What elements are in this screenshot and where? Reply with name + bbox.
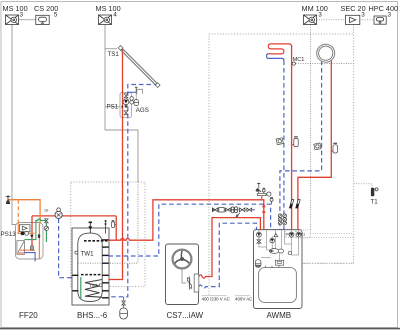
wire MS100-3 to CS200 link xyxy=(19,19,36,21)
DHW circulation pump PS5 xyxy=(55,211,62,218)
tank heater dashed flange xyxy=(84,240,108,242)
svg-text:PS13: PS13 xyxy=(1,231,17,238)
check blob on circulation xyxy=(38,234,40,238)
buffer tank BHS outer box xyxy=(72,228,109,305)
FF20 heat exchanger xyxy=(17,241,25,255)
air vent on tank return xyxy=(270,198,273,205)
AGS blue link and vessel bracket xyxy=(128,87,143,99)
pipe circulation orange dashed xyxy=(17,200,19,223)
wire MC1 dotted xyxy=(296,63,354,65)
AWMB 3way valve ellipse xyxy=(269,249,279,254)
svg-text:AWMB: AWMB xyxy=(267,311,292,320)
wire SEC20 to HPC400 dotted xyxy=(360,19,374,21)
wire MM100 down to AWMB dotted xyxy=(310,25,312,231)
module SEC 20 icon xyxy=(346,15,360,24)
thermometer tag circuit1 xyxy=(276,138,283,145)
solar collector xyxy=(120,48,158,86)
tank cold water green pipe xyxy=(80,277,82,299)
module HPC 400 icon xyxy=(374,16,386,24)
indoor unit AWMB box xyxy=(254,230,303,309)
svg-text:5: 5 xyxy=(54,11,58,18)
svg-text:TS2: TS2 xyxy=(89,283,98,288)
sensor TS2 xyxy=(99,284,102,287)
svg-text:400 /230 V AC: 400 /230 V AC xyxy=(202,297,230,302)
CS7 heat exchanger xyxy=(194,274,199,292)
T1 outdoor sensor xyxy=(371,188,374,196)
flow arrows red xyxy=(262,204,266,213)
AWMB valve under pump1 xyxy=(257,240,261,243)
AWMB small circle xyxy=(288,251,291,254)
tiny gauge marks on DHW line xyxy=(45,209,48,212)
pipe heating supply red xyxy=(291,46,293,230)
thermometer tag circuit2 xyxy=(314,143,321,150)
CS7 propeller xyxy=(187,277,191,290)
svg-text:4: 4 xyxy=(113,11,117,18)
pipe solar return blue dashed xyxy=(108,85,158,297)
svg-text:CS7...iAW: CS7...iAW xyxy=(167,311,204,320)
svg-text:400V AC: 400V AC xyxy=(235,297,252,302)
pipe expansion vessel tee blue xyxy=(123,297,125,300)
sensor TW1 xyxy=(75,251,78,254)
tank connection stubs right xyxy=(102,240,109,298)
svg-text:TW1: TW1 xyxy=(81,250,95,257)
air vent circuit2 xyxy=(331,143,337,153)
AWMB pump 1 xyxy=(257,232,262,237)
pipe heating return blue dashed xyxy=(283,61,285,230)
module CS 200 icon xyxy=(36,15,49,24)
svg-text:MS 100: MS 100 xyxy=(3,4,28,13)
pipe circuit2 supply red xyxy=(298,61,331,230)
svg-text:MS 100: MS 100 xyxy=(96,4,121,13)
pipe tap hot water orange xyxy=(8,200,40,259)
pipe CS7 supply red with flex wave xyxy=(199,218,261,279)
FF20 flow sensor xyxy=(31,246,34,250)
solar control dotted box xyxy=(71,182,145,287)
dotted leads to boundary xyxy=(310,233,354,235)
pipe circuit2 return blue dashed xyxy=(280,61,322,230)
pipe AWMB to tank return blue dashed xyxy=(108,204,270,256)
pipe cold water green inside FF20 xyxy=(24,223,36,240)
wire MS100-4 down xyxy=(104,25,106,131)
svg-text:HPC 400: HPC 400 xyxy=(369,4,399,13)
svg-text:PC0: PC0 xyxy=(286,233,293,237)
FF20 fresh water station box xyxy=(16,223,44,260)
union fittings circuit2 return xyxy=(283,214,287,225)
wire T1 dotted xyxy=(354,184,372,188)
tank solar coil xyxy=(85,280,102,298)
heat pump CS7 outdoor unit box xyxy=(166,244,199,305)
wire TS2 dotted into tank xyxy=(108,262,139,264)
sensor MC1 xyxy=(292,62,295,65)
air vent on DHW riser xyxy=(111,221,116,228)
svg-text:3: 3 xyxy=(361,11,365,18)
wire SEC20 down dotted xyxy=(353,25,355,35)
pipe FF20 orange internals xyxy=(17,233,35,250)
svg-text:3: 3 xyxy=(318,11,322,18)
AWMB vent triangle xyxy=(274,233,278,236)
CS7 fan blades xyxy=(175,251,189,264)
tap draw-off point xyxy=(6,195,10,203)
module MM 100 icon xyxy=(304,15,317,25)
AGS solar station box xyxy=(120,93,132,118)
AGS valve top xyxy=(124,94,128,98)
solar expansion vessel valve xyxy=(122,301,126,305)
AGS expansion vessel xyxy=(134,100,139,106)
AGS valve bottom xyxy=(124,111,128,115)
AGS check valve xyxy=(124,105,127,108)
pipe cold water green xyxy=(36,219,47,242)
pipe solar supply red xyxy=(108,49,122,280)
svg-text:PS1: PS1 xyxy=(107,104,119,111)
svg-text:T1: T1 xyxy=(371,199,379,206)
tank top stub sensor well xyxy=(104,220,107,234)
AGS pump PS1 xyxy=(122,106,124,108)
svg-text:MM 100: MM 100 xyxy=(302,4,328,13)
solar expansion vessel xyxy=(123,305,125,308)
svg-text:AGS: AGS xyxy=(136,107,149,114)
filling valve chain xyxy=(212,207,256,218)
AWMB inner tank xyxy=(259,268,297,303)
FF20 check valve xyxy=(30,235,33,238)
AWMB pump 3 xyxy=(289,232,294,237)
wire elbow to TS2 xyxy=(105,130,138,182)
CS7 fan drive xyxy=(182,268,187,283)
shutoff valve circuit2 supply xyxy=(296,200,300,208)
svg-text:BHS...-6: BHS...-6 xyxy=(77,311,108,320)
AGS gauges xyxy=(130,97,134,101)
AWMB expansion capsule xyxy=(255,260,261,268)
pipe DHW return blue dashed xyxy=(59,219,73,278)
cold water check valve xyxy=(44,226,48,230)
wire MM100 to SEC20 dotted xyxy=(317,19,346,21)
air vent circuit1 xyxy=(292,137,299,147)
module MS 100 no.4 icon xyxy=(99,15,112,25)
union fittings circuit1 return xyxy=(278,214,282,225)
FF20 heat exchanger warm zone xyxy=(17,252,24,254)
heating pump circle xyxy=(317,44,335,62)
pipe FF20 hot drop red xyxy=(31,216,33,247)
wire branch to TS1 xyxy=(105,48,117,50)
svg-text:FF20: FF20 xyxy=(19,311,38,320)
pipe FF20 return blue inside xyxy=(24,253,35,262)
FF20 pump PS13 xyxy=(21,232,25,236)
module MS 100 no.3 icon xyxy=(6,15,19,25)
pipe CS7 return blue dashed with flex wave xyxy=(199,223,257,288)
tank lower dashed divider xyxy=(81,274,102,276)
heating circuit serpentine red xyxy=(268,44,291,54)
AWMB controller xyxy=(275,260,283,265)
AWMB PC terminal dotted boxes xyxy=(286,230,296,238)
buffer tank BHS body xyxy=(78,233,102,301)
shutoff valve circuit1 supply xyxy=(289,200,293,208)
AWMB pump 4 xyxy=(296,232,301,237)
CS7 fan ring xyxy=(173,250,192,269)
collector node bottom xyxy=(155,83,160,88)
pipe DHW hot red with crossing hops xyxy=(32,200,264,240)
FF20 display xyxy=(20,225,31,232)
tank connection stubs left xyxy=(72,275,78,291)
cold water shutoff valve xyxy=(45,219,49,223)
safety group manifold xyxy=(256,183,271,199)
room boundary dashed box xyxy=(209,34,354,295)
svg-text:3: 3 xyxy=(20,11,24,18)
svg-text:PC1: PC1 xyxy=(298,233,305,237)
wire MS100-3 down to FF20 xyxy=(12,25,16,225)
svg-text:MC1: MC1 xyxy=(293,57,305,63)
svg-text:TS1: TS1 xyxy=(108,51,120,58)
AWMB pump 2 xyxy=(270,238,275,243)
wire AWMB controller dotted xyxy=(284,262,354,264)
collector node top TS1 xyxy=(118,45,123,50)
wire branch to PS1 pump xyxy=(105,106,124,108)
svg-text:3: 3 xyxy=(388,11,392,18)
AWMB internal piping xyxy=(259,230,299,260)
heating serpentine return blue xyxy=(267,54,284,61)
tank zone dotted divider xyxy=(78,262,102,264)
tank top stub DHW with vent xyxy=(89,222,92,233)
